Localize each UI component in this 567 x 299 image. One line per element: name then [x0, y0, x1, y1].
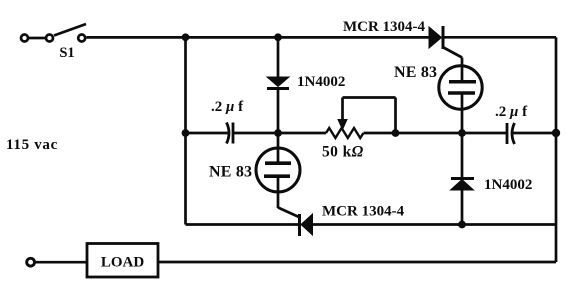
wire: top rail (switch to SCR Q1 anode)	[87, 36, 430, 39]
wire: top rail (SCR Q1 cathode to right rail)	[444, 36, 557, 39]
wire: capacitor C1 to potentiometer R1	[233, 132, 326, 135]
wire: LOAD to right rail	[158, 261, 556, 264]
wire: bottom-middle rail (SCR Q2 anode to right rail)	[313, 223, 557, 226]
capacitor C1 (.2 uf left)	[227, 123, 234, 144]
svg-text:NE 83: NE 83	[209, 164, 252, 181]
node: middle rail / lamp V2 column junction	[458, 129, 466, 137]
node: bottom-middle rail / diode D2 junction	[458, 221, 466, 229]
SCR Q1 MCR 1304-4 (top, pointing right)	[429, 26, 443, 49]
wire: middle rail node down to diode D2 anode	[461, 133, 464, 178]
wire: left rail (vertical)	[184, 37, 187, 224]
SCR Q2 MCR 1304-4 (bottom, pointing left)	[300, 214, 313, 236]
wire: bottom terminal to LOAD	[36, 261, 87, 264]
wire: terminal to switch	[29, 37, 45, 40]
wire: diode D2 anode to bottom-middle rail	[461, 190, 464, 225]
wire: middle rail (R1 to capacitor C2)	[364, 132, 507, 135]
svg-text:1N4002: 1N4002	[297, 74, 345, 90]
LOAD box	[87, 244, 158, 278]
svg-text:LOAD: LOAD	[101, 255, 145, 271]
svg-text:50 kΩ: 50 kΩ	[322, 144, 364, 161]
svg-text:NE 83: NE 83	[394, 64, 437, 81]
svg-text:115 vac: 115 vac	[6, 137, 58, 153]
terminal: AC line input (top)	[21, 35, 28, 42]
svg-text:MCR 1304-4: MCR 1304-4	[322, 204, 405, 220]
capacitor C2 (.2 uf right)	[507, 123, 515, 144]
node: middle rail / diode D1 / lamp V1 junction	[274, 129, 282, 137]
wire: lamp V1 to SCR Q2 gate (diagonal)	[278, 208, 300, 218]
node: middle rail / right rail junction	[552, 129, 560, 137]
node: R1 wiper return junction	[392, 129, 400, 137]
diode D2 1N4002 (cathode up)	[451, 179, 475, 191]
wire: bottom-middle rail (left rail to SCR Q2 cathode)	[186, 223, 300, 226]
wire: capacitor C2 to right rail	[513, 132, 556, 135]
wire: top node down to diode D1 anode	[277, 37, 280, 77]
svg-text:.2 μ f: .2 μ f	[211, 99, 244, 115]
svg-text:.2 μ f: .2 μ f	[495, 104, 528, 120]
svg-text:S1: S1	[59, 45, 74, 61]
neon lamp V1 NE 83 (left)	[256, 133, 300, 208]
switch S1	[46, 24, 86, 42]
node: top rail / diode D1 junction	[274, 33, 282, 41]
svg-text:MCR 1304-4: MCR 1304-4	[343, 19, 426, 35]
svg-text:1N4002: 1N4002	[484, 177, 532, 193]
potentiometer R1 50 kOhm (rheostat, wiper tied to right end)	[326, 98, 396, 139]
wire: diode D1 cathode to middle rail	[277, 89, 280, 134]
wire: SCR Q1 gate diagonal to lamp V2	[444, 48, 463, 67]
node: top rail / left rail junction	[182, 33, 190, 41]
neon lamp V2 NE 83 (right)	[439, 64, 482, 133]
wire: middle rail to capacitor C1	[186, 132, 228, 135]
node: middle rail / left rail junction	[182, 129, 190, 137]
wire: right rail (vertical)	[555, 37, 558, 262]
diode D1 1N4002 (cathode down)	[267, 77, 289, 89]
terminal: AC line input (bottom)	[27, 258, 35, 266]
